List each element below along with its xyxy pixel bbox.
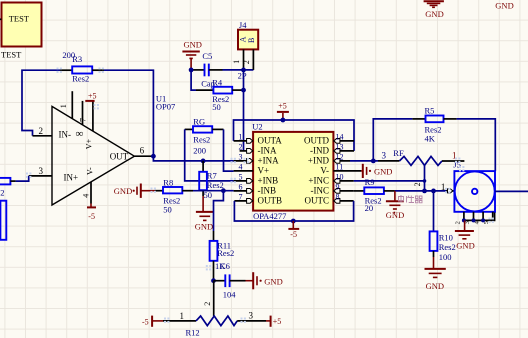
power -5 left of R12 — [142, 316, 163, 327]
svg-text:4K: 4K — [425, 134, 436, 144]
ground GND above C5 — [182, 40, 202, 70]
svg-text:V-: V- — [320, 166, 329, 176]
ground below R9 net — [386, 191, 404, 220]
svg-text:-IND: -IND — [310, 146, 329, 156]
pin 6 U2 — [234, 182, 254, 193]
svg-text:V+: V+ — [85, 138, 94, 149]
node +5 junction — [281, 118, 286, 123]
wire RG left to U2 pin5 — [185, 129, 234, 181]
svg-text:2: 2 — [39, 126, 44, 136]
wire OUTB/OUTC to -5 — [234, 201, 353, 221]
resistor R10 — [430, 191, 456, 262]
pin 1 U1 top — [71, 91, 73, 119]
svg-text:3: 3 — [239, 152, 243, 161]
svg-text:GND: GND — [495, 0, 513, 10]
pins J5 bottom — [454, 212, 494, 225]
pin 1 U2 — [234, 132, 254, 143]
svg-text:+5: +5 — [273, 317, 282, 326]
svg-text:-INC: -INC — [311, 186, 330, 196]
svg-text:2: 2 — [239, 142, 243, 151]
svg-text:+IND: +IND — [308, 156, 330, 166]
compile markers — [57, 68, 62, 73]
resistor R3 — [60, 50, 104, 84]
svg-text:V+: V+ — [258, 166, 270, 176]
power -5 below U2 — [288, 221, 299, 239]
op-amp U1 OP07 — [52, 104, 134, 205]
pin 6 U1 — [134, 155, 153, 157]
svg-text:11: 11 — [336, 162, 344, 171]
svg-text:GND: GND — [425, 9, 443, 19]
svg-text:6: 6 — [239, 182, 243, 191]
wire R9 to J5 pin1 — [395, 190, 446, 192]
svg-text:8: 8 — [336, 192, 340, 201]
svg-text:OPA4277: OPA4277 — [253, 211, 286, 221]
ground below R7 — [195, 196, 214, 231]
pin 13 U2 — [333, 142, 354, 153]
svg-text:TEST: TEST — [1, 50, 22, 60]
ground below R10 — [425, 257, 446, 291]
pin 10 U2 — [333, 172, 353, 183]
wire OUTA to OUTD loop — [234, 120, 355, 151]
annotation potentiometer (Chinese) — [399, 195, 423, 203]
svg-text:C5: C5 — [202, 51, 212, 61]
pin 1 J5 — [441, 182, 455, 193]
svg-text:V-: V- — [85, 167, 94, 175]
svg-text:20: 20 — [365, 203, 374, 213]
svg-text:Res2: Res2 — [207, 180, 224, 190]
svg-text:-5: -5 — [88, 212, 95, 221]
node RF wiper junction — [422, 189, 427, 194]
test point TEST — [0, 3, 42, 60]
svg-text:GND: GND — [386, 210, 404, 220]
pin 4 U2 — [234, 162, 254, 171]
svg-text:OUTC: OUTC — [305, 196, 330, 206]
svg-text:+5: +5 — [278, 101, 287, 110]
connector at left edge (cut) — [0, 201, 6, 240]
resistor R4 — [196, 77, 244, 111]
resistor R9 — [354, 177, 395, 213]
wire J5 right — [495, 190, 528, 192]
svg-text:13: 13 — [336, 142, 344, 151]
wire feedback R3 to OUT node — [104, 70, 153, 156]
svg-text:Res2: Res2 — [439, 242, 456, 252]
svg-text:GND: GND — [264, 276, 282, 286]
pin 12 U2 — [333, 152, 350, 163]
svg-text:2P: 2P — [238, 71, 247, 81]
wire C5 to J4 pins — [223, 69, 254, 71]
svg-text:Res2: Res2 — [217, 248, 234, 258]
wire pin12 to RF — [350, 160, 378, 162]
svg-text:Res2: Res2 — [193, 135, 210, 145]
node C5 left junction — [189, 68, 194, 73]
svg-text:200: 200 — [193, 146, 206, 156]
pin 2 U1 — [33, 135, 53, 137]
svg-text:RF: RF — [393, 148, 404, 158]
svg-text:OUTA: OUTA — [258, 136, 283, 146]
svg-text:7: 7 — [239, 192, 243, 201]
svg-text:TEST: TEST — [9, 14, 30, 24]
svg-text:14: 14 — [336, 132, 344, 141]
svg-text:4: 4 — [239, 162, 243, 171]
svg-text:50: 50 — [212, 102, 221, 112]
svg-text:100: 100 — [439, 252, 452, 262]
svg-text:GND: GND — [374, 166, 392, 176]
svg-text:R8: R8 — [163, 177, 173, 187]
resistor RG — [185, 117, 224, 156]
svg-text:+5: +5 — [88, 92, 97, 101]
pin 7 U1 top — [82, 101, 84, 125]
svg-text:-INB: -INB — [258, 186, 277, 196]
svg-text:6: 6 — [140, 145, 145, 155]
wire RG right to U2 pin4 — [224, 129, 234, 171]
node R10 top junction — [431, 189, 436, 194]
svg-text:OUT: OUT — [110, 152, 129, 162]
svg-text:GND: GND — [184, 40, 202, 50]
svg-text:∞: ∞ — [76, 128, 84, 140]
svg-text:s2: s2 — [0, 187, 5, 197]
node J4 junction — [241, 68, 246, 73]
wire to IN+ — [16, 176, 29, 181]
wire pin10 to wiper — [354, 180, 425, 182]
svg-text:R3: R3 — [72, 54, 82, 64]
pin 3 U1 — [29, 175, 52, 177]
svg-text:1: 1 — [239, 132, 243, 141]
svg-text:OUTB: OUTB — [258, 196, 283, 206]
svg-text:3: 3 — [382, 150, 387, 160]
resistor R11 — [210, 231, 235, 281]
power +5 right of R12 — [266, 316, 281, 327]
svg-text:U2: U2 — [252, 122, 262, 132]
resistor at left edge (cut) — [0, 178, 16, 197]
svg-text:R9: R9 — [365, 177, 375, 187]
svg-text:10: 10 — [336, 172, 344, 181]
power -5 below U1 — [87, 204, 96, 222]
svg-text:RG: RG — [193, 117, 205, 127]
capacitor C5 — [191, 51, 222, 89]
node -5 junction — [291, 219, 296, 224]
svg-text:R4: R4 — [212, 77, 223, 87]
pin 11 U2 — [333, 162, 361, 171]
svg-text:4: 4 — [81, 194, 90, 198]
svg-text:1: 1 — [59, 104, 68, 108]
connector J5 — [454, 171, 495, 212]
pin 3 U2 — [234, 152, 254, 163]
svg-text:GND: GND — [456, 240, 474, 250]
pin 8 U2 — [333, 192, 353, 203]
ground right of pin 11 — [361, 164, 392, 178]
svg-text:J4: J4 — [239, 20, 247, 30]
svg-text:50: 50 — [163, 205, 172, 215]
svg-text:R5: R5 — [425, 106, 435, 116]
svg-text:2: 2 — [454, 221, 461, 224]
svg-text:IN-: IN- — [59, 129, 72, 139]
svg-text:1: 1 — [441, 182, 446, 192]
node R7 top junction — [201, 159, 206, 164]
svg-text:1: 1 — [232, 60, 241, 64]
svg-text:R12: R12 — [186, 328, 200, 338]
svg-text:GND: GND — [426, 281, 444, 291]
connector J4 — [238, 20, 258, 50]
ground right of C6 — [246, 272, 283, 289]
wire R8 to U2 pin6 — [193, 190, 234, 192]
svg-text:OP07: OP07 — [156, 102, 175, 112]
svg-text:R10: R10 — [439, 233, 453, 243]
svg-text:+INA: +INA — [258, 156, 280, 166]
svg-text:-5: -5 — [142, 317, 149, 326]
pin 2 J4 — [252, 49, 254, 70]
node R11 bottom junction — [211, 278, 216, 283]
svg-text:2: 2 — [242, 60, 251, 64]
svg-text:50: 50 — [204, 190, 213, 200]
svg-text:12: 12 — [336, 152, 344, 161]
svg-text:2: 2 — [203, 302, 212, 306]
node OUT junction — [151, 154, 156, 159]
node R5 left junction — [371, 159, 376, 164]
svg-text:1: 1 — [180, 311, 185, 321]
wire wiper R12 — [213, 281, 215, 316]
svg-text:3: 3 — [249, 311, 254, 321]
svg-text:C6: C6 — [220, 261, 230, 271]
ground left of R8 — [114, 184, 155, 198]
wire C5 left down to R4 — [191, 70, 196, 90]
svg-text:+INB: +INB — [258, 176, 279, 186]
potentiometer R12 — [163, 311, 266, 338]
wire junction down to R11 — [214, 191, 224, 231]
pin 2 U2 — [239, 142, 254, 153]
svg-text:5: 5 — [239, 172, 243, 181]
wire R3 left to op-amp IN- — [22, 70, 60, 136]
resistor R7 — [199, 161, 224, 200]
pin 1 J4 — [243, 49, 245, 70]
svg-text:9: 9 — [336, 182, 340, 191]
svg-text:OUTD: OUTD — [304, 136, 329, 146]
node R4 right junction — [241, 88, 246, 93]
pin 14 U2 — [333, 132, 354, 143]
power +5 above U2 — [277, 101, 289, 119]
potentiometer RF — [378, 148, 464, 170]
pin 9 U2 — [333, 182, 353, 193]
node R8 net junction — [221, 188, 226, 193]
svg-text:2: 2 — [413, 182, 422, 186]
svg-text:GND: GND — [195, 221, 213, 231]
svg-text:+INC: +INC — [308, 176, 329, 186]
pin 4 U1 bottom — [90, 182, 92, 204]
wire J4 to U2 pin2 — [243, 70, 245, 151]
svg-text:-INA: -INA — [258, 146, 277, 156]
svg-text:-5: -5 — [290, 230, 297, 239]
ground top (symbol) — [424, 1, 444, 19]
op-amp U2 OPA4277 — [252, 122, 333, 222]
svg-text:IN+: IN+ — [64, 173, 79, 183]
resistor R8 — [155, 177, 193, 214]
svg-text:B: B — [247, 38, 256, 43]
ground below J5 — [455, 220, 475, 250]
svg-text:3: 3 — [39, 166, 44, 176]
wire OUT to U2 pin3 — [153, 156, 233, 161]
power +5 above U1 — [85, 92, 96, 101]
pin V+ U1 top — [92, 101, 94, 131]
wire RF wiper down — [424, 165, 426, 191]
capacitor C6 — [214, 261, 246, 300]
pin 5 U2 — [234, 172, 254, 183]
svg-text:104: 104 — [223, 290, 237, 300]
svg-text:GND: GND — [114, 186, 132, 196]
pin 7 U2 — [234, 192, 253, 203]
resistor R5 — [373, 106, 495, 171]
svg-text:Res2: Res2 — [72, 73, 89, 83]
